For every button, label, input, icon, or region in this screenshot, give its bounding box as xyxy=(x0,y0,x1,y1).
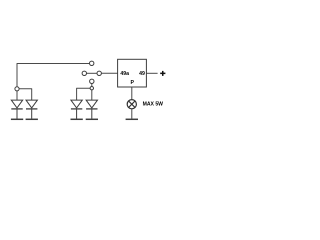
svg-text:49: 49 xyxy=(139,71,145,77)
svg-text:MAX 5W: MAX 5W xyxy=(143,102,164,108)
svg-text:49a: 49a xyxy=(120,71,129,77)
svg-text:P: P xyxy=(131,80,135,86)
